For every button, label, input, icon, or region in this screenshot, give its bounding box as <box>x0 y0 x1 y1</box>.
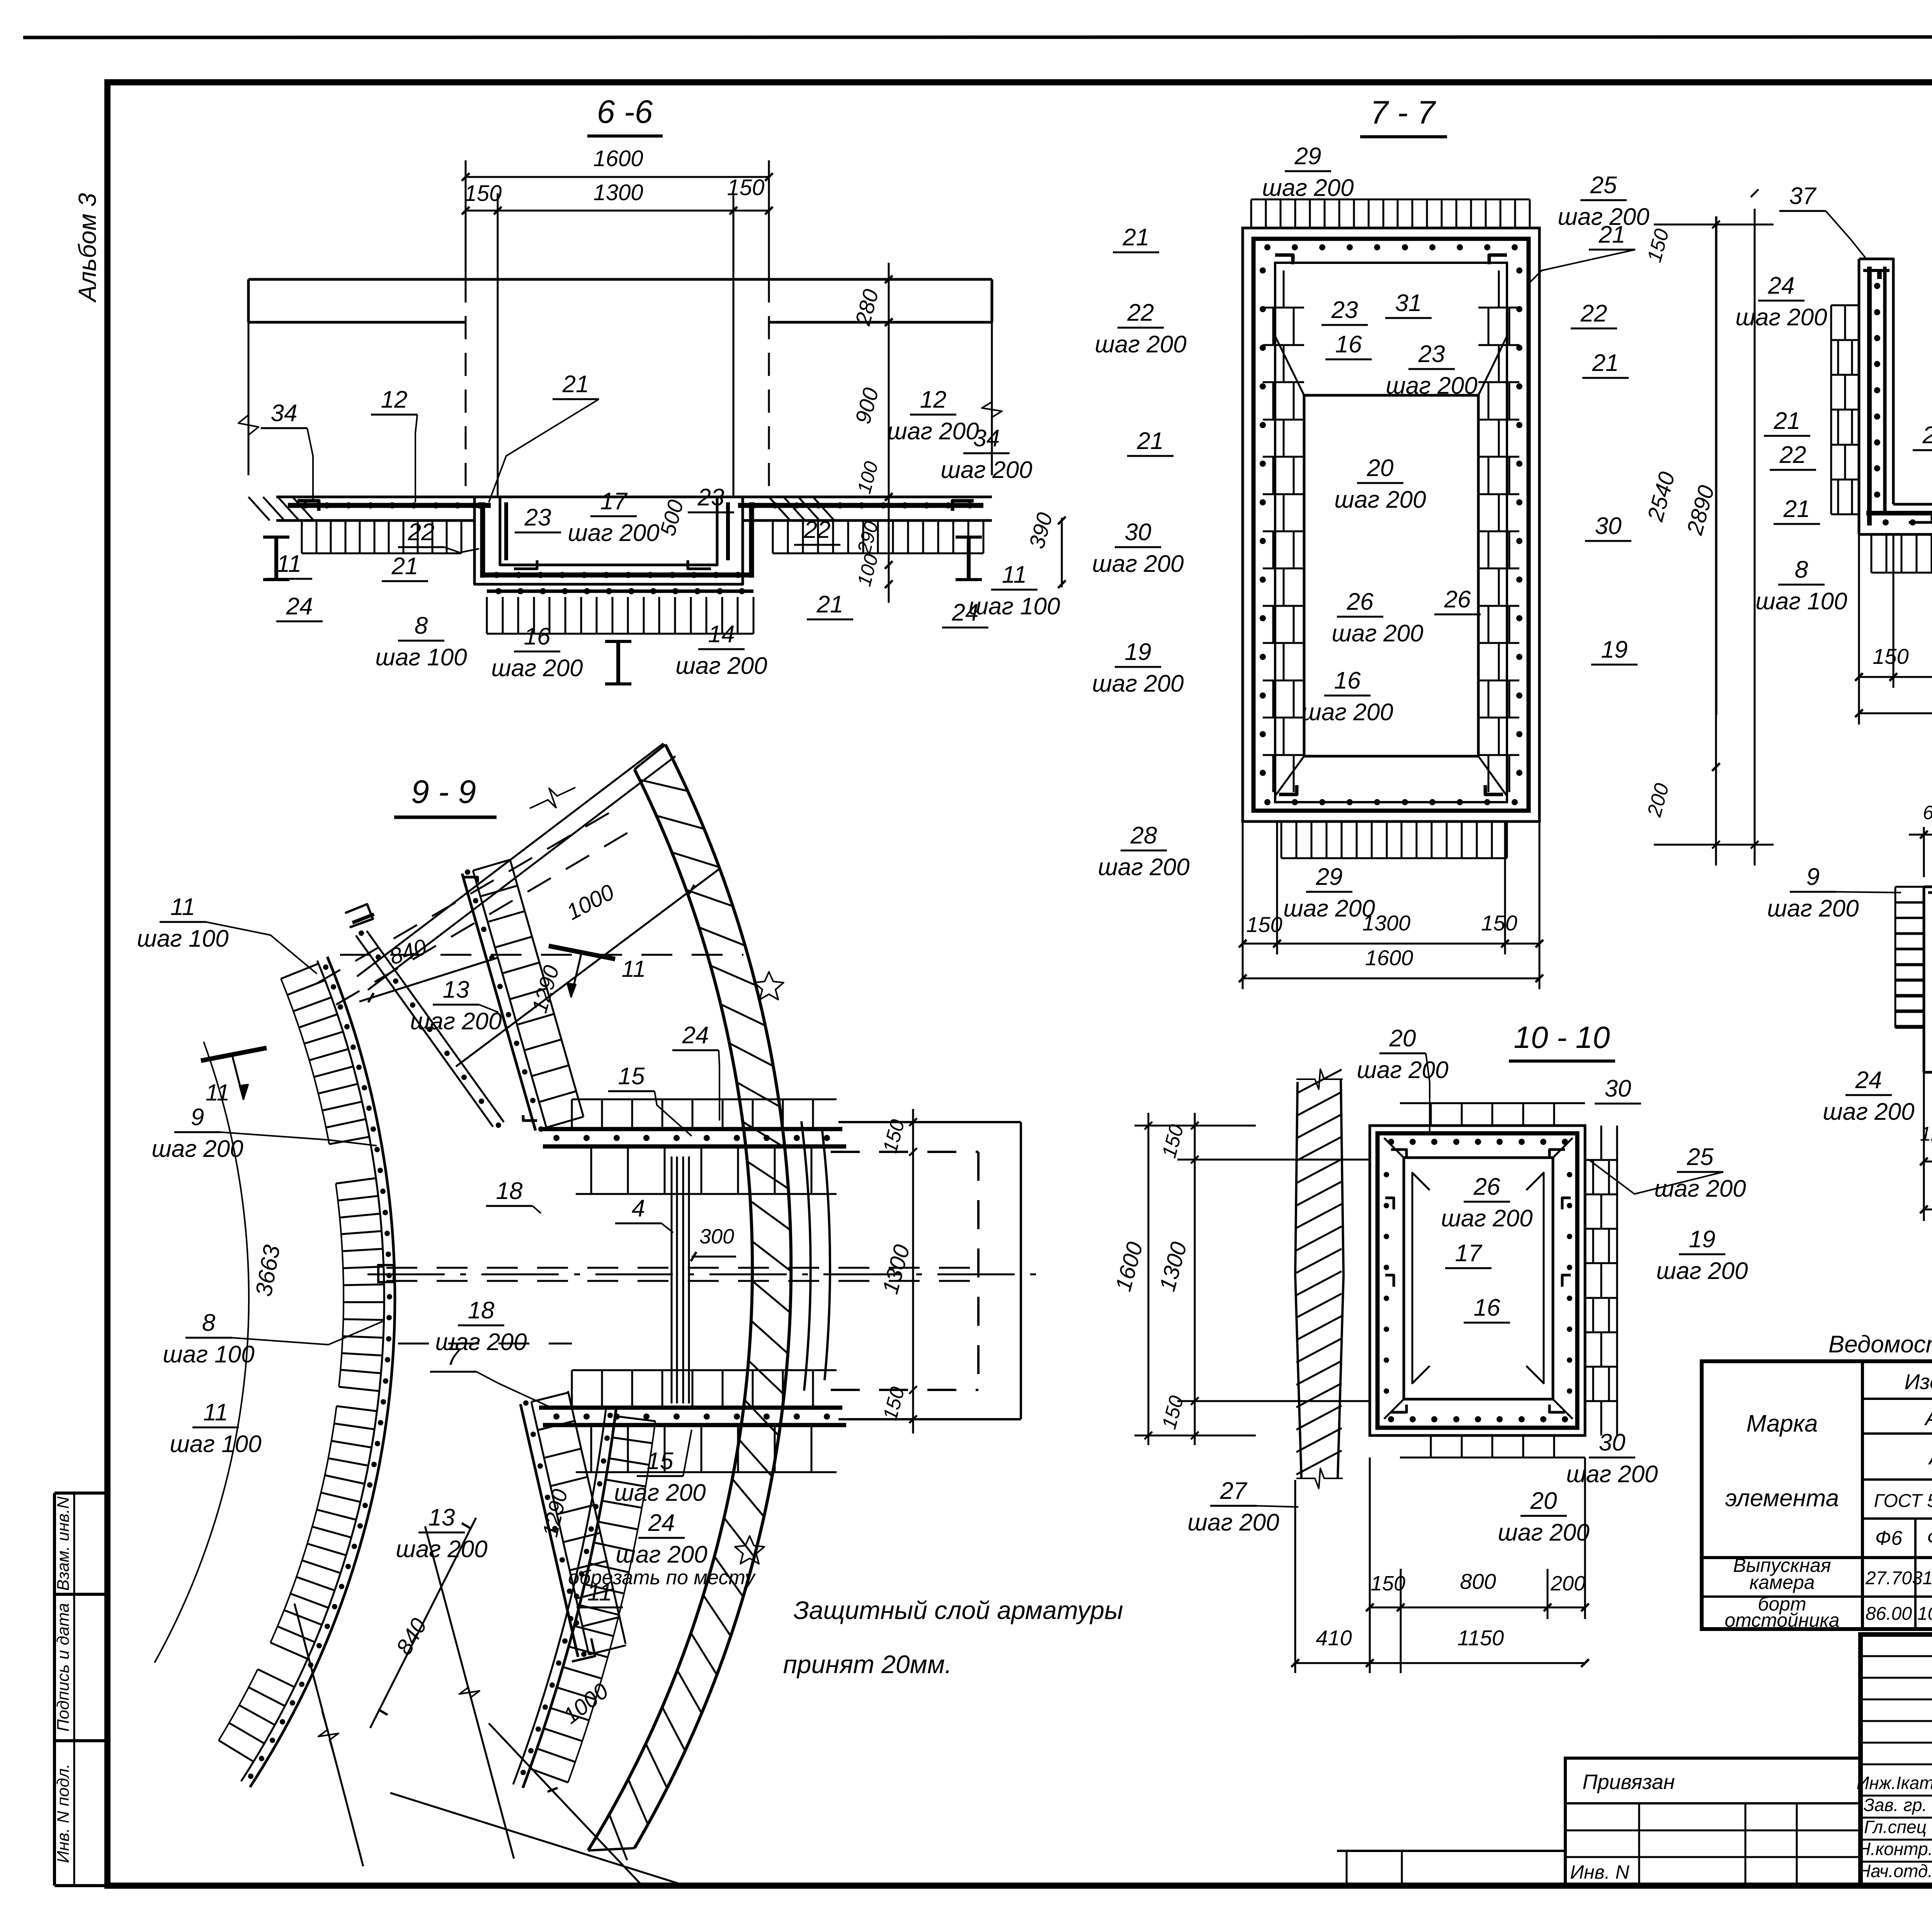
6-6 dim chain verticals <box>888 263 890 498</box>
svg-text:27: 27 <box>1220 1478 1248 1504</box>
10-10 left wall strip hatched <box>1295 1082 1301 1478</box>
svg-text:17: 17 <box>1455 1240 1483 1267</box>
9-9 top radial wall hooks <box>464 877 478 883</box>
svg-text:11: 11 <box>203 1399 228 1426</box>
9-9 dim 1000 top <box>456 869 719 1066</box>
svg-text:34: 34 <box>271 400 298 427</box>
9-9 star break marks on band <box>754 972 784 1000</box>
svg-text:шаг 200: шаг 200 <box>1301 699 1393 726</box>
sheet top edge line <box>23 37 1932 37</box>
svg-text:элемента: элемента <box>1725 1485 1839 1512</box>
steel table horizontals <box>1862 1398 1932 1400</box>
7-7 wall brick hatch right <box>1478 307 1519 309</box>
title block name rows <box>1861 1795 1932 1797</box>
svg-text:шаг 200: шаг 200 <box>151 1136 243 1162</box>
section 6-6 I-beam anchors <box>274 537 278 580</box>
svg-text:шаг 200: шаг 200 <box>1357 1057 1448 1083</box>
7-7 top hooks <box>1275 255 1293 264</box>
svg-text:11: 11 <box>622 956 646 982</box>
10-10 corner hooks <box>1391 1150 1406 1157</box>
svg-text:шаг 100: шаг 100 <box>968 593 1060 620</box>
svg-text:шаг 200: шаг 200 <box>616 1541 707 1568</box>
svg-text:29: 29 <box>1316 864 1343 890</box>
9-9 outlet top slab <box>539 1127 842 1131</box>
9-9 band A combs <box>281 964 318 979</box>
svg-text:шаг 100: шаг 100 <box>170 1431 261 1458</box>
svg-text:1600: 1600 <box>593 146 643 171</box>
svg-text:шаг 200: шаг 200 <box>1498 1519 1589 1546</box>
svg-text:23: 23 <box>1418 341 1445 367</box>
svg-text:7 - 7: 7 - 7 <box>1370 94 1436 131</box>
section 6-6 trough wall rebar <box>480 502 485 578</box>
9-9 wall band inner arc <box>588 769 752 1850</box>
svg-text:шаг 200: шаг 200 <box>568 520 659 546</box>
svg-text:Инв. N подл.: Инв. N подл. <box>54 1764 73 1863</box>
svg-text:шаг 200: шаг 200 <box>1332 620 1423 647</box>
svg-text:Нач.отд.: Нач.отд. <box>1858 1861 1932 1881</box>
section 6-6 comb below right slab <box>772 520 774 553</box>
7-7 rebar dots left <box>1260 267 1266 274</box>
9-9 left thin arc <box>155 1042 249 1663</box>
svg-text:11: 11 <box>1002 561 1027 588</box>
svg-text:200: 200 <box>1550 1572 1585 1595</box>
svg-text:24: 24 <box>648 1510 675 1536</box>
svg-text:22: 22 <box>1127 299 1154 326</box>
svg-text:шаг 200: шаг 200 <box>1386 372 1477 399</box>
10-10 left dims <box>1148 1113 1150 1445</box>
svg-text:1600: 1600 <box>1365 946 1413 970</box>
svg-text:камера: камера <box>1749 1571 1815 1593</box>
svg-text:Взам. инв.N: Взам. инв.N <box>54 1497 73 1591</box>
svg-text:300: 300 <box>699 1225 734 1248</box>
svg-text:Марка: Марка <box>1746 1410 1818 1437</box>
svg-text:шаг 200: шаг 200 <box>1735 304 1827 331</box>
9-9 upper dashed lines <box>317 808 618 983</box>
svg-text:18: 18 <box>468 1297 495 1324</box>
7-7 inner cavity <box>1304 395 1478 756</box>
svg-text:20: 20 <box>1367 455 1394 481</box>
svg-text:16: 16 <box>1334 667 1361 694</box>
svg-text:4: 4 <box>632 1195 645 1222</box>
9-9 outlet bottom slab brick <box>576 1471 837 1473</box>
svg-text:11: 11 <box>206 1080 230 1105</box>
svg-text:16: 16 <box>524 623 551 650</box>
svg-text:шаг 200: шаг 200 <box>1262 175 1354 201</box>
svg-text:шаг 100: шаг 100 <box>375 644 467 671</box>
svg-text:19: 19 <box>1125 639 1151 665</box>
svg-text:14: 14 <box>708 621 735 648</box>
svg-text:21: 21 <box>1783 496 1810 522</box>
9-9 wall band hatch <box>639 780 687 791</box>
9-9 outlet top slab comb <box>571 1099 573 1129</box>
svg-text:1150: 1150 <box>1458 1626 1504 1650</box>
section 6-6 ceiling slab <box>248 278 992 281</box>
svg-text:шаг 200: шаг 200 <box>1823 1099 1914 1125</box>
svg-text:шаг 200: шаг 200 <box>1767 895 1859 922</box>
svg-text:шаг 200: шаг 200 <box>614 1480 706 1506</box>
8-8 left dim 2890 <box>1716 216 1718 715</box>
svg-text:21: 21 <box>562 371 589 398</box>
section 6-6 hatch wedges left <box>248 497 270 520</box>
svg-text:Ф8: Ф8 <box>1927 1527 1932 1549</box>
10-10 inner cavity <box>1404 1158 1553 1399</box>
svg-text:120: 120 <box>1920 1123 1932 1145</box>
10-10 inner chamfer rect <box>1412 1173 1430 1383</box>
svg-text:шаг 200: шаг 200 <box>887 418 979 445</box>
svg-text:отстойника: отстойника <box>1725 1609 1839 1631</box>
svg-text:20: 20 <box>1389 1025 1416 1052</box>
10-10 rebar dots <box>1388 1139 1394 1145</box>
svg-text:6 -6: 6 -6 <box>597 94 653 130</box>
9-9 dim 840 top <box>359 957 498 1002</box>
svg-text:8: 8 <box>202 1310 216 1336</box>
svg-text:21: 21 <box>1592 350 1619 376</box>
steel table verticals <box>1861 1361 1864 1629</box>
svg-text:21: 21 <box>816 591 844 618</box>
9-9 bottom radial wall end plate <box>572 1638 595 1662</box>
svg-text:17: 17 <box>600 488 628 515</box>
8-8 brick hatch left <box>1831 339 1859 341</box>
svg-text:шаг 200: шаг 200 <box>410 1008 502 1035</box>
section 6-6 trough outer <box>474 497 743 584</box>
9-9 section mark 11 top-left <box>201 1048 267 1061</box>
svg-text:800: 800 <box>1460 1569 1496 1594</box>
svg-text:12: 12 <box>381 386 408 413</box>
svg-text:60: 60 <box>1923 802 1932 823</box>
9-9 outer face arcs right of band <box>801 1121 811 1391</box>
svg-text:Н.контр.: Н.контр. <box>1858 1839 1932 1859</box>
7-7 cavity top flare <box>1275 336 1304 395</box>
svg-text:шаг 200: шаг 200 <box>1092 670 1184 697</box>
11-11 top hooks <box>1928 893 1932 900</box>
left stamp column boxes <box>53 1493 56 1886</box>
7-7 cavity bottom flare <box>1275 756 1304 796</box>
9-9 wall band bottom cut <box>588 1848 634 1850</box>
svg-text:21: 21 <box>1599 221 1626 248</box>
section 6-6 trough bottom rebar <box>483 573 752 578</box>
11-11 top dims 60 <box>1923 827 1925 877</box>
title block thin rows top <box>1861 1655 1932 1657</box>
svg-text:шаг 200: шаг 200 <box>491 655 583 682</box>
9-9 section mark 11 upper arm <box>549 946 615 959</box>
svg-text:Подпись и дата: Подпись и дата <box>54 1603 73 1732</box>
section 6-6 slab break marks <box>238 375 259 475</box>
svg-text:шаг 100: шаг 100 <box>1755 588 1847 615</box>
section 6-6 extension verticals <box>465 160 467 279</box>
7-7 inner second rebar <box>1275 263 1507 802</box>
svg-text:410: 410 <box>1316 1626 1352 1650</box>
svg-text:шаг 200: шаг 200 <box>1566 1461 1658 1488</box>
section 6-6 dashed shaft verticals <box>465 279 467 497</box>
svg-text:22: 22 <box>804 517 831 543</box>
svg-text:8: 8 <box>1795 556 1808 583</box>
svg-text:Альбом 3: Альбом 3 <box>73 193 101 303</box>
svg-text:29: 29 <box>1294 143 1321 170</box>
svg-text:10 - 10: 10 - 10 <box>1514 1020 1610 1054</box>
svg-text:24: 24 <box>682 1022 709 1049</box>
svg-text:11: 11 <box>170 894 195 920</box>
9-9 bottom cut lines <box>294 1604 363 1866</box>
9-9 band A dots <box>323 964 328 970</box>
section 6-6 comb below trough <box>486 597 488 634</box>
7-7 rebar dots top <box>1264 244 1270 250</box>
svg-text:22: 22 <box>1779 442 1806 468</box>
title block outer <box>1861 1634 1932 1886</box>
10-10 brick right band <box>1616 1126 1618 1435</box>
10-10 rebar rect <box>1378 1133 1577 1428</box>
7-7 rebar rect <box>1253 239 1529 811</box>
bottom-left strip cells <box>1337 1850 1565 1852</box>
svg-text:Ф6: Ф6 <box>1875 1527 1902 1549</box>
svg-text:26: 26 <box>1444 586 1471 613</box>
svg-text:21: 21 <box>1122 224 1150 251</box>
9-9 dashed top level line <box>340 954 743 956</box>
svg-text:Ведомость: Ведомость <box>1828 1331 1932 1358</box>
svg-text:15: 15 <box>618 1063 645 1090</box>
svg-text:16: 16 <box>1474 1294 1500 1321</box>
9-9 element 4 vertical bars <box>671 1156 673 1403</box>
svg-text:Арматура класса: Арматура класса <box>1924 1405 1932 1430</box>
svg-text:9 - 9: 9 - 9 <box>411 774 476 810</box>
9-9 outlet bottom slab comb <box>571 1370 573 1408</box>
svg-text:шаг 200: шаг 200 <box>1656 1258 1748 1284</box>
svg-text:316.40: 316.40 <box>1912 1568 1932 1588</box>
svg-text:Зав. гр.: Зав. гр. <box>1864 1795 1927 1815</box>
7-7 outer rect <box>1243 228 1539 821</box>
svg-text:24: 24 <box>286 593 313 620</box>
svg-text:30: 30 <box>1605 1075 1631 1102</box>
svg-text:25: 25 <box>1590 172 1617 199</box>
svg-text:23: 23 <box>524 504 551 531</box>
svg-text:37: 37 <box>1789 183 1817 209</box>
svg-text:шаг 200: шаг 200 <box>940 457 1032 483</box>
svg-text:15: 15 <box>647 1448 673 1475</box>
8-8 comb below <box>1871 534 1872 573</box>
section 6-6 hatch wedges right <box>769 497 790 520</box>
7-7 rebar dots bottom <box>1264 799 1270 805</box>
svg-text:150: 150 <box>1481 911 1517 935</box>
svg-text:1300: 1300 <box>593 180 643 205</box>
section 6-6 trough top rebar with dots <box>288 503 491 508</box>
svg-text:26: 26 <box>1473 1173 1500 1200</box>
svg-text:шаг 100: шаг 100 <box>163 1341 254 1368</box>
9-9 top radial wall <box>462 874 536 1131</box>
section 6-6 side slabs <box>276 496 992 498</box>
svg-text:108.0: 108.0 <box>1917 1604 1932 1624</box>
8-8 bottom slab <box>1859 533 1932 536</box>
svg-text:27.70: 27.70 <box>1865 1568 1912 1588</box>
9-9 outlet top slab brick <box>576 1193 837 1195</box>
9-9 upper slab edge plate <box>345 904 373 927</box>
9-9 bottom radial wall <box>520 1404 578 1657</box>
svg-text:21: 21 <box>391 553 418 580</box>
svg-text:шаг 200: шаг 200 <box>1092 551 1184 577</box>
7-7 rebar dots right <box>1516 267 1522 274</box>
steel table outer <box>1702 1361 1932 1629</box>
svg-text:23: 23 <box>1331 297 1358 323</box>
11-11 left wall <box>1924 887 1932 1051</box>
svg-text:19: 19 <box>1689 1226 1716 1253</box>
svg-text:86.00: 86.00 <box>1866 1604 1912 1624</box>
svg-text:21: 21 <box>1774 408 1801 434</box>
svg-text:11: 11 <box>277 551 301 577</box>
svg-text:13: 13 <box>429 1504 455 1531</box>
9-9 dim 840 bottom <box>370 1518 476 1728</box>
svg-text:20: 20 <box>1530 1488 1557 1514</box>
svg-text:13: 13 <box>443 976 469 1003</box>
svg-text:шаг 200: шаг 200 <box>1095 331 1186 358</box>
svg-text:шаг 200: шаг 200 <box>1334 486 1426 513</box>
svg-text:21: 21 <box>1137 428 1164 454</box>
9-9 band A plate <box>378 1265 394 1282</box>
svg-text:9: 9 <box>1806 864 1820 890</box>
svg-text:26: 26 <box>1347 588 1374 615</box>
9-9 outlet dashed rectangle <box>831 1151 978 1153</box>
9-9 outlet left dims <box>912 1109 914 1434</box>
svg-text:шаг 200: шаг 200 <box>1098 854 1189 881</box>
svg-text:28: 28 <box>1130 822 1157 849</box>
svg-text:19: 19 <box>1601 636 1628 663</box>
svg-text:шаг 200: шаг 200 <box>1187 1509 1279 1536</box>
8-8 left wall <box>1859 259 1893 504</box>
svg-text:шаг 100: шаг 100 <box>137 925 228 952</box>
svg-text:шаг 200: шаг 200 <box>675 653 767 679</box>
7-7 comb bottom <box>1281 821 1282 858</box>
8-8 wall top hooks <box>1863 270 1879 279</box>
svg-text:16: 16 <box>1335 331 1362 358</box>
10-10 wall strip breaks <box>1296 1069 1343 1089</box>
10-10 outer rect <box>1370 1126 1585 1435</box>
svg-text:24: 24 <box>1855 1067 1882 1094</box>
11-11 bottom slab <box>1924 1071 1932 1074</box>
svg-text:шаг 200: шаг 200 <box>1283 895 1375 922</box>
svg-text:12: 12 <box>920 386 947 413</box>
9-9 dim 1000 bottom <box>390 1793 688 1886</box>
svg-text:24: 24 <box>1768 272 1795 299</box>
svg-text:Изделия арматурные: Изделия арматурные <box>1905 1369 1932 1394</box>
svg-text:30: 30 <box>1125 519 1151 546</box>
10-10 cavity chamfers <box>1384 1138 1404 1158</box>
section 6-6 trough inner <box>500 497 717 565</box>
svg-text:31: 31 <box>1395 290 1422 316</box>
svg-text:шаг 200: шаг 200 <box>1441 1205 1532 1232</box>
9-9 wall band outer arc <box>634 745 791 1848</box>
pривязан block <box>1565 1758 1861 1886</box>
svg-text:Защитный слой арматуры: Защитный слой арматуры <box>793 1596 1123 1624</box>
svg-text:25: 25 <box>1687 1144 1714 1170</box>
8-8 wall rebar left <box>1867 267 1872 526</box>
svg-text:Инж.Iкат: Инж.Iкат <box>1856 1773 1932 1793</box>
section 6-6 comb below left slab <box>301 520 303 553</box>
11-11 combs <box>1895 886 1924 888</box>
svg-text:Инв. N: Инв. N <box>1570 1861 1629 1883</box>
9-9 outlet centerlines <box>386 1267 974 1269</box>
9-9 band B2 lower arcs <box>523 1407 616 1788</box>
9-9 band A double arc <box>250 957 395 1787</box>
svg-text:30: 30 <box>1595 513 1622 539</box>
7-7 wall brick hatch left <box>1263 307 1304 309</box>
10-10 brick top band <box>1400 1102 1585 1104</box>
9-9 wall band top cut <box>634 745 665 769</box>
svg-text:150: 150 <box>464 181 502 206</box>
svg-text:22: 22 <box>408 519 435 546</box>
9-9 outlet solid rectangle <box>838 1121 1021 1123</box>
svg-text:11: 11 <box>587 1579 612 1606</box>
9-9 dashed mid line <box>398 1343 572 1345</box>
svg-text:7: 7 <box>447 1344 461 1370</box>
svg-text:34: 34 <box>973 425 1000 452</box>
svg-text:23: 23 <box>1922 422 1932 449</box>
svg-text:шаг 200: шаг 200 <box>1654 1175 1746 1202</box>
9-9 upper slab radial edge <box>356 935 493 1127</box>
svg-text:9: 9 <box>191 1104 204 1131</box>
svg-text:18: 18 <box>496 1178 523 1204</box>
svg-text:шаг 200: шаг 200 <box>396 1536 487 1563</box>
8-8 bottom rebar <box>1866 511 1932 515</box>
svg-text:23: 23 <box>697 484 724 511</box>
svg-text:ГОСТ 5781 - 82: ГОСТ 5781 - 82 <box>1874 1491 1932 1511</box>
svg-text:Привязан: Привязан <box>1582 1770 1675 1794</box>
svg-text:30: 30 <box>1599 1429 1626 1456</box>
svg-text:Гл.спец: Гл.спец <box>1864 1817 1927 1837</box>
svg-text:1300: 1300 <box>1362 911 1411 935</box>
svg-text:22: 22 <box>1580 300 1607 327</box>
10-10 brick bottom band <box>1400 1457 1585 1459</box>
9-9 outlet bottom slab <box>539 1406 842 1410</box>
svg-text:принят 20мм.: принят 20мм. <box>783 1650 952 1679</box>
svg-text:8: 8 <box>415 612 428 639</box>
7-7 comb top <box>1250 199 1252 228</box>
svg-text:150: 150 <box>1872 644 1908 668</box>
9-9 upper cut chords <box>357 743 663 976</box>
